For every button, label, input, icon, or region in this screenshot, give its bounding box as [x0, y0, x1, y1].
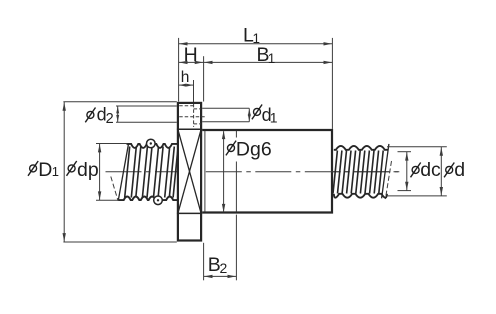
svg-text:dc: dc — [420, 159, 441, 181]
svg-text:1: 1 — [268, 51, 276, 66]
svg-text:D: D — [38, 159, 52, 181]
wrench-flat cross marks (X) — [178, 130, 201, 213]
flange block (wrench-flat collar) — [178, 103, 201, 241]
ball in groove (top) — [147, 139, 156, 148]
dimension h (hole position) — [179, 80, 194, 102]
svg-text:dp: dp — [77, 159, 99, 181]
flange/journal silhouette lines — [177, 128, 202, 130]
dimension ødc (thread core dia) — [398, 152, 412, 191]
svg-text:h: h — [181, 69, 190, 86]
svg-text:1: 1 — [270, 110, 278, 126]
label øD1 — [30, 165, 37, 172]
grease hole (hidden stepped hole ød2 / ød1) — [179, 104, 205, 127]
dimension H (flange width) — [179, 56, 333, 101]
label ødc — [412, 166, 419, 173]
dimension L1 (overall length) — [179, 38, 333, 129]
journal step edge — [235, 131, 237, 212]
dimension øD1 (flange dia) — [63, 102, 177, 242]
dimension ød1 (hole dia) — [202, 108, 251, 122]
ball screw thread (left, ødp section) — [118, 144, 178, 201]
cylindrical journal (øDg6 section) — [202, 130, 332, 213]
label ød — [446, 166, 453, 173]
ball in groove (bottom) — [154, 196, 163, 205]
label ød2 — [87, 111, 94, 118]
thread runout (dash-dot) — [385, 161, 391, 199]
dimension ødp (ball pitch circle dia) — [96, 144, 127, 201]
svg-text:d: d — [454, 159, 465, 181]
dimension ød2 (counterbore dia) — [116, 106, 177, 122]
svg-text:1: 1 — [52, 164, 59, 179]
dimension øDg6 (journal dia) — [222, 131, 225, 213]
label ødp — [68, 165, 75, 172]
fixing thread (right, ød/ødc section) — [333, 144, 389, 198]
dimension B2 — [204, 215, 237, 281]
svg-text:Dg6: Dg6 — [236, 138, 272, 160]
thread runout break (dash-dot) — [111, 177, 118, 201]
centerline across journal — [206, 171, 401, 173]
centerline (shaft axis) — [106, 171, 401, 173]
svg-text:2: 2 — [106, 111, 114, 127]
dimension B1 — [204, 61, 332, 64]
shoulder chamfer edge — [204, 131, 206, 212]
label ød1 — [254, 108, 261, 115]
svg-text:2: 2 — [220, 260, 228, 276]
label øDg6 — [226, 138, 272, 162]
svg-text:H: H — [184, 44, 198, 66]
dimension ød (thread major dia) — [387, 147, 447, 196]
